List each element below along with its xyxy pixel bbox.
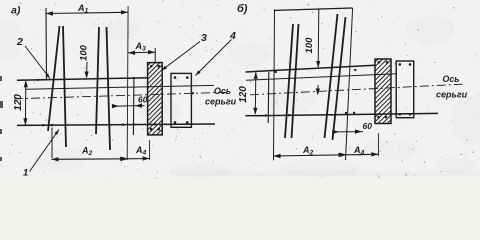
frame top line 1 <box>17 78 148 81</box>
dimension A3 line <box>128 51 155 54</box>
junction dots left figure <box>37 77 194 127</box>
dimension 60 line right figure <box>336 131 363 133</box>
dimension A4 extension line <box>149 140 151 160</box>
dimension A2 left extension line <box>51 128 53 159</box>
dimension A4 left arrow <box>121 157 128 161</box>
svg-text:2: 2 <box>16 36 23 48</box>
dimension A2 right arrow right figure <box>339 153 346 157</box>
callout 2 leader <box>25 46 50 79</box>
dimension A4 line <box>127 158 149 160</box>
dimension A4 right arrow <box>143 156 150 160</box>
svg-text:б): б) <box>237 3 248 15</box>
dimension 120 down arrow right figure <box>253 108 257 115</box>
dimension A3 left arrow <box>128 51 135 55</box>
svg-text:серьги: серьги <box>436 90 468 100</box>
dimension 100 down arrow <box>85 72 89 79</box>
dimension 60 line <box>113 105 145 108</box>
dimension 60 left arrow right figure <box>332 130 339 134</box>
scan edge artifact marks <box>0 76 3 161</box>
centerline (axis) dash-dot <box>14 92 230 99</box>
link line group1 right <box>63 26 66 147</box>
svg-text:3: 3 <box>201 32 207 44</box>
dimension A1 right arrow <box>121 10 128 14</box>
outline box left vertical / A2 extension <box>274 9 275 160</box>
frame top line 2 <box>26 85 214 89</box>
shackle rectangle <box>171 73 191 127</box>
dimension 60 right arrow <box>135 103 142 107</box>
dimension A4 line right figure <box>346 153 379 156</box>
svg-text:серьги: серьги <box>205 97 237 107</box>
dimension A3 extension line <box>154 48 156 62</box>
dimension 120 line right figure <box>254 73 257 115</box>
shackle rectangle right figure <box>396 61 414 118</box>
dimension 100 line right figure <box>317 9 320 67</box>
dimension A1 left arrow <box>46 11 53 15</box>
svg-text:4: 4 <box>229 30 236 42</box>
shackle rivet dots <box>174 76 189 124</box>
dimension A2 right arrow <box>120 157 127 161</box>
dimension A1 line <box>46 12 128 13</box>
svg-text:Ось: Ось <box>443 74 460 84</box>
dimension 60 left arrow <box>112 104 119 108</box>
dimension A2 line <box>52 158 128 161</box>
dimension 120 line <box>24 81 26 125</box>
frame bottom line <box>17 124 215 125</box>
frame top line 2 right figure <box>246 74 396 80</box>
svg-text:120: 120 <box>238 86 249 103</box>
svg-text:Ось: Ось <box>214 86 231 96</box>
outline box top line <box>275 8 353 10</box>
dimension A4 left arrow right figure <box>340 153 347 157</box>
link line group1 right (right fig) <box>292 24 299 138</box>
scan noise speckles <box>0 0 480 180</box>
link line group2 right (right fig) <box>333 17 346 140</box>
callout 1 leader <box>30 130 60 172</box>
frame left vertical edge right figure <box>267 72 270 123</box>
link line group2 left (right fig) <box>325 14 338 138</box>
bracket rivet dots right figure <box>377 61 388 118</box>
junction dots right figure <box>265 69 357 117</box>
dimension A3 right arrow <box>148 50 155 54</box>
callout 4 leader <box>196 40 232 76</box>
bracket hatched section <box>78 63 233 135</box>
dimension 100 lower arrow on centerline <box>317 85 319 94</box>
shackle rivet dots right figure <box>399 63 412 115</box>
dimension A2 left arrow right figure <box>274 154 281 158</box>
link line group2 right <box>107 27 111 150</box>
dimension A4 right arrow right figure <box>371 152 378 156</box>
bracket rivet dots <box>150 65 160 131</box>
svg-text:1: 1 <box>23 168 28 179</box>
frame right vertical edge <box>132 78 135 135</box>
callout 3 leader <box>162 42 201 71</box>
extension line right of A1 (down to A2/A4) <box>126 6 129 160</box>
dimension 100 line <box>86 62 88 77</box>
extension line left of A1 <box>45 8 48 80</box>
dimension 60 right arrow right figure <box>355 129 362 133</box>
link line group2 left <box>96 27 99 134</box>
dimension 120 down arrow <box>23 118 27 125</box>
dimension 120 up arrow right figure <box>254 72 258 79</box>
frame top line 1 right figure <box>246 65 376 72</box>
svg-text:100: 100 <box>79 44 90 61</box>
dimension A2 line right figure <box>274 155 346 156</box>
dimension 120 up arrow <box>24 80 28 87</box>
svg-text:60: 60 <box>363 121 373 131</box>
svg-text:а): а) <box>11 5 21 17</box>
link line group1 left <box>48 26 60 131</box>
svg-text:100: 100 <box>304 37 315 54</box>
frame bottom line right figure <box>246 113 439 115</box>
scan gray blotches <box>0 16 480 178</box>
svg-text:60: 60 <box>138 95 148 105</box>
link line group1 left (right fig) <box>285 24 293 138</box>
centerline (axis) dash-dot right figure <box>250 84 462 95</box>
dimension A2 left arrow <box>52 157 59 161</box>
bracket hatched section right figure <box>314 59 452 124</box>
svg-text:120: 120 <box>13 94 24 111</box>
dimension A4 extension line right figure <box>378 133 380 156</box>
dimension 100 down arrow right figure <box>316 61 320 68</box>
outline box right vertical / A2-A4 extension <box>346 8 353 160</box>
